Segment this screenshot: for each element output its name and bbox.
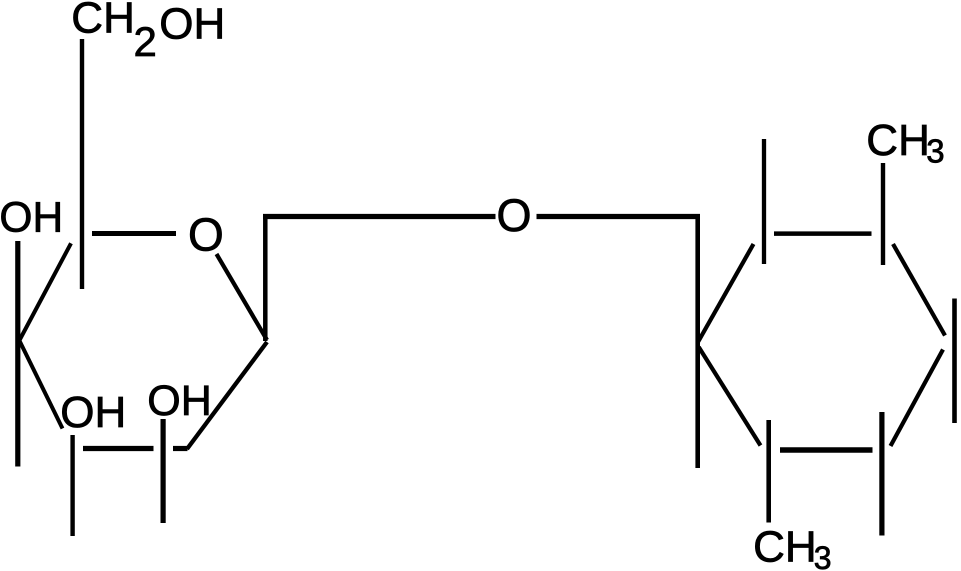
bond C5-C4 left upper diagonal xyxy=(20,243,71,340)
bond hexagon top edge xyxy=(774,231,872,236)
bond hexagon top-left stem xyxy=(762,139,766,264)
bond hexagon bottom edge xyxy=(780,447,873,453)
bond hexagon right tick xyxy=(952,299,957,424)
bond hexagon bottom-right diagonal xyxy=(891,350,944,447)
bond hexagon top-left diagonal xyxy=(698,244,754,342)
svg-text:CH: CH xyxy=(753,523,817,571)
svg-text:OH: OH xyxy=(0,194,63,241)
bond OH C3 long stem xyxy=(15,241,20,467)
bond hexagon bottom-right stem xyxy=(879,412,884,536)
bond aryl descender vertical xyxy=(695,214,700,468)
svg-text:CH: CH xyxy=(71,0,135,43)
bond linker left horizontal xyxy=(263,214,496,219)
svg-text:3: 3 xyxy=(926,133,944,170)
svg-text:O: O xyxy=(188,208,224,260)
bond hexagon bottom-left stem xyxy=(766,420,771,523)
label CH3 bottom xyxy=(753,523,831,571)
svg-text:OH: OH xyxy=(147,377,212,425)
svg-text:2: 2 xyxy=(134,18,157,65)
svg-text:O: O xyxy=(497,190,532,241)
bond OH C2 stem xyxy=(161,419,166,523)
bond C1 glycosidic vertical xyxy=(263,214,268,341)
bond hexagon top-right diagonal xyxy=(893,244,945,336)
svg-text:3: 3 xyxy=(814,540,832,571)
bond hexagon bottom-left diagonal xyxy=(699,347,761,446)
bond C5-CH2OH stem xyxy=(80,39,84,289)
bond linker right horizontal xyxy=(537,214,701,219)
bond C1-C2 diagonal xyxy=(187,342,267,449)
bond OH C4 stem xyxy=(70,435,74,536)
bond sugar bottom edge left part xyxy=(83,446,154,451)
bond sugar bottom edge right part xyxy=(173,446,188,451)
bond ring top edge C5-O xyxy=(92,231,176,236)
svg-text:OH: OH xyxy=(60,388,126,437)
svg-text:CH: CH xyxy=(866,116,930,165)
label CH2OH xyxy=(71,0,225,65)
label CH3 top-right xyxy=(866,116,944,170)
bond hexagon top-right stem xyxy=(881,163,885,265)
svg-text:OH: OH xyxy=(159,0,225,48)
bond O-C1 diagonal xyxy=(217,254,268,340)
bond C4-C3 left lower diagonal xyxy=(20,341,63,429)
